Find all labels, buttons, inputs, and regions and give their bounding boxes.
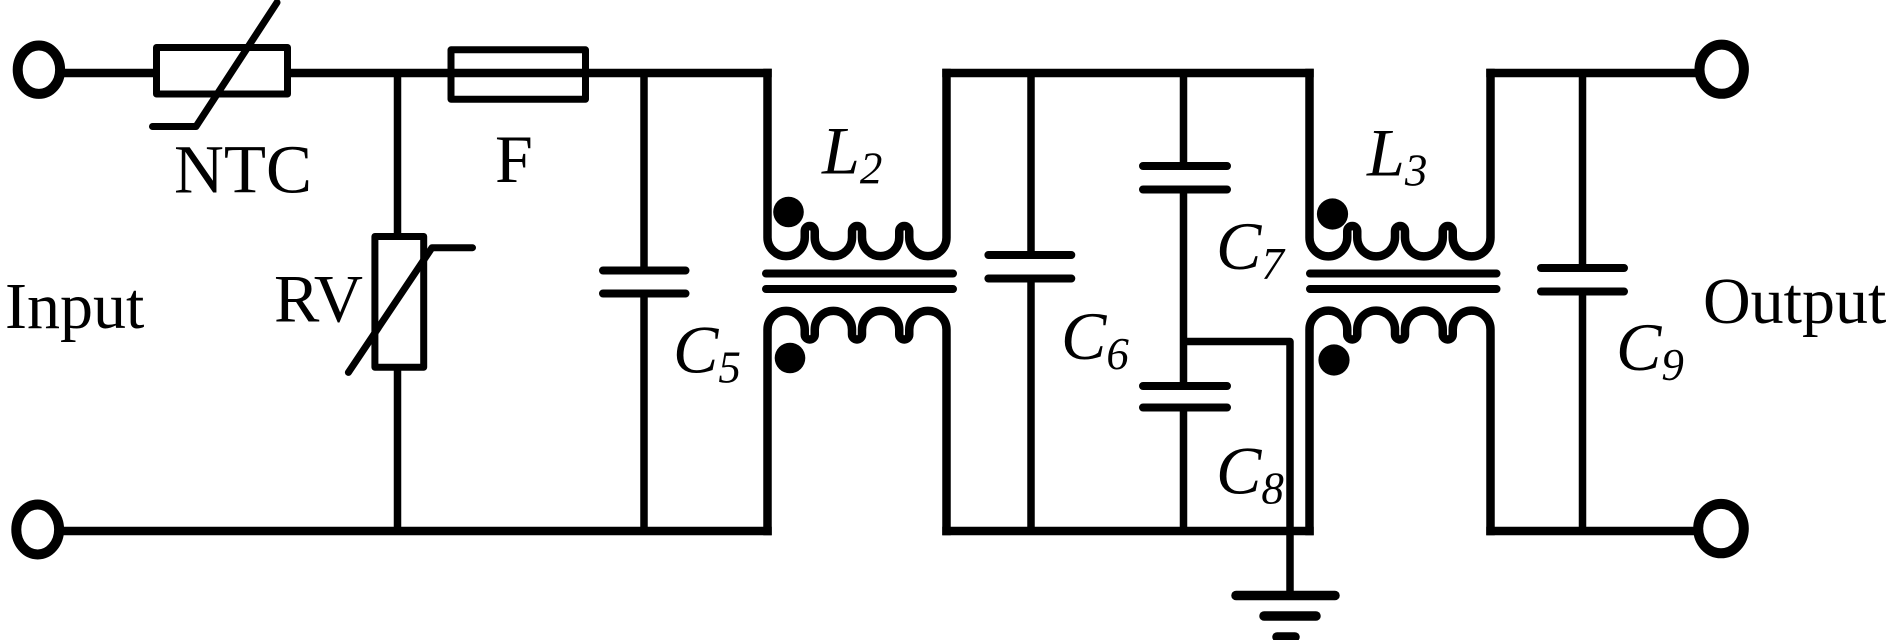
svg-text:RV: RV [274,261,363,337]
ground bar 2 [1264,611,1316,621]
wire capacitor C6 lower lead [1027,279,1035,532]
input terminal top [18,45,60,93]
input terminal bottom [16,505,59,555]
svg-text:Input: Input [5,270,144,343]
inductor L3 bottom winding (pins at bottom rail) [1310,311,1491,531]
wire earth branch jog [1184,342,1291,596]
wire bottom rail input terminal to L2, nodes at RV and C5 branches [61,527,768,536]
wire NTC through fuse F to L2, node at RV branch [291,69,768,78]
svg-text:C8: C8 [1216,433,1284,514]
wire top rail L3 to output terminal, node at C9 branch [1491,69,1697,78]
varistor RV diagonal stroke [348,248,472,373]
wire input top terminal to NTC [62,69,153,78]
ground bar 1 [1236,591,1335,601]
svg-text:L2: L2 [821,113,882,194]
inductor L3 top winding (pins at top rail) [1310,73,1491,256]
svg-text:C9: C9 [1616,309,1684,390]
choke L2 polarity dot top [773,197,804,228]
wire capacitor C7 upper lead [1180,73,1188,166]
capacitor C8 plates [1143,386,1227,408]
wire capacitor C6 upper lead [1027,73,1035,255]
wire capacitor C9 lower lead [1579,292,1587,532]
wire bottom rail L2 to L3, nodes at C6, C8 and ground branches [947,527,1310,536]
output terminal bottom [1698,504,1744,553]
choke L2 polarity dot bottom [775,343,806,374]
wire capacitor C8 lower lead [1180,408,1188,532]
NTC thermistor body [157,48,288,95]
wire capacitor C5 lower lead [640,294,648,532]
wire RV branch upper [394,73,402,237]
wire RV branch lower [394,367,402,531]
output terminal top [1700,45,1744,94]
svg-text:NTC: NTC [174,132,312,208]
choke L3 core bars [1310,274,1497,290]
inductor L2 bottom winding (pins at bottom rail) [768,311,947,531]
wire capacitor C9 upper lead [1579,73,1587,268]
NTC diagonal stroke [153,3,278,127]
choke L3 polarity dot top [1317,198,1348,229]
wire bottom rail L3 to output terminal, node at C9 branch [1491,527,1695,536]
svg-text:L3: L3 [1366,115,1427,196]
svg-text:Output: Output [1703,265,1886,338]
wire C7 to C8 lead [1180,190,1188,387]
inductor L2 top winding (pins at top rail) [768,73,947,256]
ground bar 3 [1277,632,1295,640]
choke L2 core bars [766,274,953,290]
svg-text:C7: C7 [1216,208,1286,289]
svg-text:C6: C6 [1061,298,1129,379]
wire capacitor C5 upper lead [640,73,648,271]
varistor RV body [375,237,424,368]
svg-text:F: F [495,121,533,197]
capacitor C7 plates [1143,166,1227,190]
choke L3 polarity dot bottom [1318,344,1349,375]
capacitor C5 plates [603,271,686,294]
wire top rail L2 to L3, nodes at C6 and C7 branches [947,69,1310,78]
capacitor C9 plates [1541,268,1624,292]
svg-text:C5: C5 [673,312,741,393]
capacitor C6 plates [988,255,1071,279]
fuse F body [451,50,586,100]
